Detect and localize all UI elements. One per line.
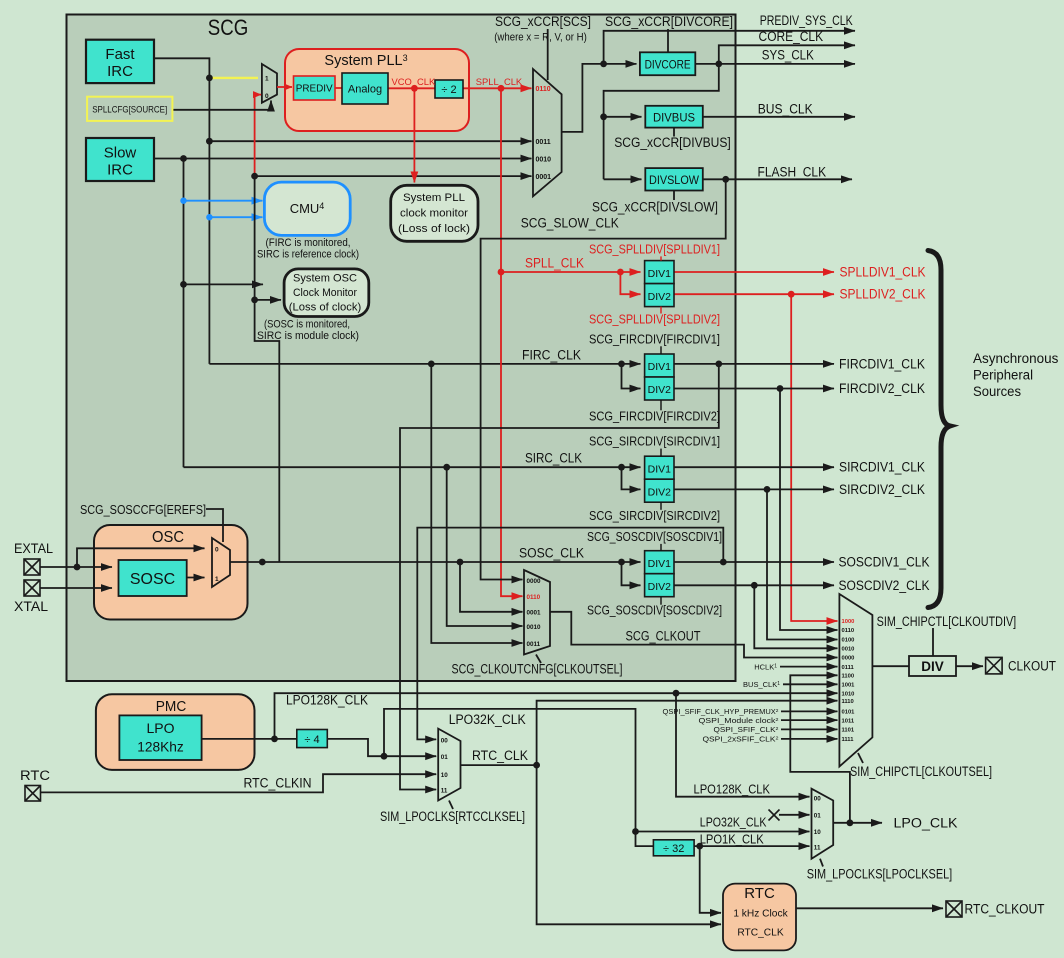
wire DIV to CLKOUT pad bbox=[956, 665, 983, 667]
wire VCO_CLK Analog to div2 bbox=[388, 87, 435, 89]
svg-text:RTC: RTC bbox=[20, 768, 50, 783]
PREDIV bbox=[294, 76, 336, 100]
svg-text:DIV2: DIV2 bbox=[648, 291, 672, 303]
svg-text:OSC: OSC bbox=[152, 529, 184, 546]
wire DIVSLOW label tick bbox=[673, 191, 675, 201]
svg-text:FLASH_CLK: FLASH_CLK bbox=[758, 165, 827, 180]
svg-text:SPLLDIV2_CLK: SPLLDIV2_CLK bbox=[840, 287, 926, 302]
svg-text:Asynchronous: Asynchronous bbox=[973, 351, 1059, 366]
svg-text:CMU4: CMU4 bbox=[290, 201, 325, 216]
svg-text:SPLL_CLK: SPLL_CLK bbox=[525, 256, 584, 271]
wire HCLK to SIM mux 0111 bbox=[780, 666, 838, 668]
wire div32 out LPO1K to LPOCLKSEL 11 bbox=[694, 845, 809, 847]
svg-text:LPO_CLK: LPO_CLK bbox=[894, 816, 958, 831]
junction DIVCORE out bbox=[715, 61, 722, 68]
svg-text:DIV1: DIV1 bbox=[648, 463, 672, 475]
svg-text:SCG_xCCR[SCS]: SCG_xCCR[SCS] bbox=[495, 14, 591, 29]
wire FIRCDIV1 to RTCCLKSEL 11 bbox=[400, 364, 719, 790]
wire SCG_CLKOUT to SIM mux 0000 bbox=[550, 612, 838, 658]
svg-text:LPO128K_CLK: LPO128K_CLK bbox=[694, 782, 771, 797]
svg-text:DIV2: DIV2 bbox=[648, 486, 672, 498]
wire SIRCDIV1_CLK out bbox=[674, 466, 835, 468]
svg-text:01: 01 bbox=[814, 813, 822, 820]
pad EXTAL bbox=[24, 559, 40, 575]
Analog bbox=[342, 73, 388, 104]
SOSCDIV DIV2 bbox=[645, 574, 674, 597]
svg-text:SCG_SOSCDIV[SOSCDIV1]: SCG_SOSCDIV[SOSCDIV1] bbox=[587, 529, 722, 544]
wire SLOW_CLK to SCG_CLKOUT 0000 bbox=[481, 179, 726, 579]
pad CLKOUT bbox=[986, 657, 1003, 674]
brace asynchronous peripheral sources bbox=[928, 251, 950, 608]
mux RTCCLKSEL bbox=[438, 729, 460, 801]
wire LPO1K to RTC 1kHz bbox=[700, 846, 721, 913]
svg-text:FIRC_CLK: FIRC_CLK bbox=[522, 348, 581, 363]
junction LPO32K lpo bbox=[632, 828, 639, 835]
svg-text:1100: 1100 bbox=[842, 674, 855, 680]
svg-text:LPO: LPO bbox=[146, 720, 174, 736]
wire SIRC riser bbox=[183, 159, 185, 468]
svg-text:PREDIV: PREDIV bbox=[296, 83, 333, 95]
DIVBUS bbox=[645, 106, 703, 128]
svg-text:RTC_CLK: RTC_CLK bbox=[737, 928, 783, 939]
svg-text:0011: 0011 bbox=[527, 641, 541, 648]
junction SPLL div tap bbox=[498, 269, 505, 276]
svg-text:0001: 0001 bbox=[527, 610, 542, 617]
svg-text:1010: 1010 bbox=[842, 691, 855, 697]
svg-text:Sources: Sources bbox=[973, 384, 1021, 399]
svg-text:Fast: Fast bbox=[105, 46, 135, 63]
svg-text:QSPI_2xSFIF_CLK2: QSPI_2xSFIF_CLK2 bbox=[703, 736, 780, 744]
svg-text:0110: 0110 bbox=[842, 628, 855, 634]
wire SOSC to SCG_CLKOUT 0001 bbox=[460, 562, 523, 612]
wire SOSC to SCS mux 0001 bbox=[255, 175, 532, 177]
svg-text:SOSCDIV2_CLK: SOSCDIV2_CLK bbox=[839, 578, 930, 593]
wire QSPI_SFIF_CLK to 1101 bbox=[781, 728, 838, 730]
junction VCO tap bbox=[411, 85, 418, 92]
svg-text:FIRCDIV1_CLK: FIRCDIV1_CLK bbox=[839, 357, 925, 372]
svg-text:1011: 1011 bbox=[842, 718, 855, 724]
SOSCDIV DIV1 bbox=[645, 551, 674, 574]
svg-text:0101: 0101 bbox=[842, 710, 856, 716]
svg-text:SOSC: SOSC bbox=[130, 571, 175, 588]
mux PLL source select bbox=[262, 64, 277, 103]
junction CMU blue tap FIRC bbox=[206, 214, 212, 220]
wire RTC_CLKIN bbox=[41, 774, 437, 792]
wire SIM CLKOUTSEL label tick bbox=[858, 753, 863, 763]
wire SPLL_CLK riser bbox=[501, 88, 523, 596]
DIVCORE bbox=[640, 52, 695, 75]
junction DIVBUS in bbox=[600, 113, 607, 120]
svg-text:11: 11 bbox=[814, 844, 821, 851]
wire SCS mux out jog bbox=[562, 64, 604, 132]
wire XTAL in bbox=[40, 587, 112, 589]
source block Slow IRC bbox=[86, 138, 154, 181]
svg-text:VCO_CLK: VCO_CLK bbox=[392, 76, 437, 87]
wire SOSCDIV2_CLK out bbox=[674, 584, 835, 586]
svg-text:1: 1 bbox=[265, 76, 269, 83]
svg-text:SIM_CHIPCTL[CLKOUTSEL]: SIM_CHIPCTL[CLKOUTSEL] bbox=[850, 764, 992, 779]
wire SOSC_CLK row bbox=[230, 561, 641, 563]
svg-text:0111: 0111 bbox=[842, 665, 855, 671]
CMU block bbox=[264, 182, 350, 235]
svg-text:BUS_CLK: BUS_CLK bbox=[758, 102, 813, 117]
wire SIRC to SIRCDIV2 bbox=[622, 467, 641, 489]
svg-text:SCG_FIRCDIV[FIRCDIV1]: SCG_FIRCDIV[FIRCDIV1] bbox=[589, 331, 720, 346]
wire RTC_CLK to SIM mux 1110 bbox=[537, 701, 838, 765]
junction FIRCDIV2 bbox=[777, 385, 784, 392]
wire FIRC riser to SCG_CLKOUT 0011 bbox=[431, 364, 522, 643]
junction SPLL div2 tap bbox=[617, 269, 624, 276]
svg-text:SCG_SOSCCFG[EREFS]: SCG_SOSCCFG[EREFS] bbox=[80, 503, 206, 517]
svg-text:SCG_CLKOUT: SCG_CLKOUT bbox=[626, 629, 701, 644]
svg-text:(where x = R, V, or H): (where x = R, V, or H) bbox=[494, 32, 587, 44]
SPLLDIV DIV1 bbox=[645, 261, 674, 284]
wire div4 out LPO32K bbox=[327, 739, 436, 756]
svg-text:SIRC_CLK: SIRC_CLK bbox=[525, 451, 582, 466]
wire SOSC to OSC clock monitor bbox=[255, 299, 281, 301]
svg-text:DIV1: DIV1 bbox=[648, 558, 672, 570]
wire DIVCORE tap down bbox=[604, 64, 719, 179]
wire DIVCORE out SYS_CLK bbox=[695, 63, 855, 65]
svg-text:0011: 0011 bbox=[536, 139, 551, 146]
junction SOSCDIV1 bbox=[720, 559, 727, 566]
wire FIRCDIV2 riser to SIM mux 0110 bbox=[780, 389, 838, 631]
svg-text:(SOSC is monitored,: (SOSC is monitored, bbox=[264, 319, 350, 331]
SIRCDIV DIV1 bbox=[645, 456, 674, 479]
svg-text:SIRCDIV2_CLK: SIRCDIV2_CLK bbox=[839, 482, 925, 497]
wire DIVCORE select tick bbox=[667, 29, 669, 52]
SCG block enclosure bbox=[67, 15, 736, 682]
junction SOSC 0001 bbox=[251, 173, 258, 180]
junction FIRCDIV1 bbox=[715, 361, 722, 368]
junction SOSC SOSCDIV bbox=[618, 559, 625, 566]
svg-text:HCLK1: HCLK1 bbox=[754, 663, 777, 672]
SOSC oscillator bbox=[119, 560, 187, 596]
svg-text:DIV: DIV bbox=[921, 659, 944, 674]
svg-text:(Loss of lock): (Loss of lock) bbox=[398, 223, 470, 235]
source block Fast IRC bbox=[86, 40, 154, 83]
wire QSPI_Module_clock to 1011 bbox=[781, 719, 838, 721]
svg-text:LPO128K_CLK: LPO128K_CLK bbox=[286, 693, 368, 708]
junction LPO out bbox=[271, 736, 278, 743]
divider div32 bbox=[653, 840, 694, 856]
svg-text:BUS_CLK1: BUS_CLK1 bbox=[743, 680, 780, 689]
junction DIVCORE in bbox=[600, 61, 607, 68]
divider div4 bbox=[297, 730, 328, 748]
junction SIRC clkout bbox=[443, 464, 450, 471]
svg-text:DIV2: DIV2 bbox=[648, 581, 672, 593]
svg-text:SCG_xCCR[DIVSLOW]: SCG_xCCR[DIVSLOW] bbox=[592, 200, 718, 215]
svg-text:System PLL: System PLL bbox=[403, 192, 465, 204]
wire PLL mux out to PREDIV bbox=[277, 86, 292, 88]
svg-text:SCG_xCCR[DIVCORE]: SCG_xCCR[DIVCORE] bbox=[605, 14, 733, 29]
wire to DIVBUS bbox=[604, 116, 642, 118]
svg-text:÷ 32: ÷ 32 bbox=[663, 843, 684, 855]
wire SIRC ref to CMU bbox=[184, 200, 263, 202]
divider div2 bbox=[435, 80, 463, 98]
junction SOSC clkout bbox=[457, 559, 464, 566]
wire BUS_CLK bbox=[703, 116, 855, 118]
label tick SIRCDIV bbox=[660, 449, 662, 457]
svg-text:RTC: RTC bbox=[744, 885, 775, 902]
wire FIRC from Fast IRC bbox=[154, 58, 209, 364]
wire RTC_CLK to RTC module bbox=[537, 765, 721, 924]
svg-text:÷ 2: ÷ 2 bbox=[441, 84, 456, 96]
junction FIRC corner dot bbox=[206, 75, 213, 82]
FIRCDIV DIV2 bbox=[645, 377, 674, 400]
svg-text:RTC_CLKOUT: RTC_CLKOUT bbox=[965, 902, 1045, 917]
svg-text:DIVCORE: DIVCORE bbox=[645, 60, 691, 72]
svg-text:SIM_LPOCLKS[LPOCLKSEL]: SIM_LPOCLKS[LPOCLKSEL] bbox=[807, 867, 953, 882]
wire DIVBUS label tick bbox=[673, 128, 675, 137]
wire LPO128K_CLK to SIM mux 1010 bbox=[275, 693, 838, 739]
pad XTAL bbox=[24, 580, 40, 596]
svg-text:SCG: SCG bbox=[208, 15, 249, 40]
svg-text:SPLL_CLK: SPLL_CLK bbox=[476, 76, 523, 87]
junction FIRC 0011 riser bbox=[428, 361, 435, 368]
mux LPOCLKSEL bbox=[812, 789, 834, 859]
svg-text:PREDIV_SYS_CLK: PREDIV_SYS_CLK bbox=[760, 13, 853, 28]
svg-text:SCG_FIRCDIV[FIRCDIV2]: SCG_FIRCDIV[FIRCDIV2] bbox=[589, 408, 720, 423]
svg-text:RTC_CLKIN: RTC_CLKIN bbox=[244, 776, 312, 791]
wire FLASH_CLK bbox=[703, 178, 852, 180]
mux OSC bypass mux bbox=[212, 538, 230, 587]
PMC block bbox=[96, 694, 255, 770]
pad RTC bbox=[25, 786, 41, 802]
RTC module bbox=[723, 884, 796, 951]
wire SPLLDIV2 riser to SIM mux 1000 bbox=[791, 294, 837, 621]
svg-text:SIRCDIV1_CLK: SIRCDIV1_CLK bbox=[839, 460, 925, 475]
svg-text:SCG_CLKOUTCNFG[CLKOUTSEL]: SCG_CLKOUTCNFG[CLKOUTSEL] bbox=[452, 662, 623, 677]
svg-text:10: 10 bbox=[441, 772, 449, 779]
register field SPLLCFG[SOURCE] bbox=[87, 97, 172, 121]
svg-text:SOSCDIV1_CLK: SOSCDIV1_CLK bbox=[839, 555, 930, 570]
wire PREDIV to Analog bbox=[335, 87, 342, 89]
svg-text:1101: 1101 bbox=[842, 728, 855, 734]
svg-text:QSPI_SFIF_CLK_HYP_PREMUX2: QSPI_SFIF_CLK_HYP_PREMUX2 bbox=[663, 708, 780, 716]
svg-text:CLKOUT: CLKOUT bbox=[1008, 659, 1056, 674]
wire SPLLDIV2_CLK out bbox=[674, 293, 834, 295]
svg-text:SPLLDIV1_CLK: SPLLDIV1_CLK bbox=[840, 265, 926, 280]
label tick FIRCDIV bbox=[660, 346, 662, 354]
junction SOSC line bbox=[259, 559, 266, 566]
wire SIRC_CLK to SIRCDIV1 bbox=[184, 466, 641, 468]
pad RTC_CLKOUT bbox=[946, 901, 962, 917]
wire SPLL_CLK to SPLLDIV2 bbox=[620, 272, 640, 294]
svg-text:DIVSLOW: DIVSLOW bbox=[649, 175, 699, 187]
svg-text:0010: 0010 bbox=[527, 624, 542, 631]
svg-text:1110: 1110 bbox=[842, 699, 854, 705]
svg-text:Clock Monitor: Clock Monitor bbox=[293, 287, 357, 299]
mux SCS system clock select bbox=[533, 69, 562, 196]
wire SIRC from Slow IRC to SCS mux 0010 bbox=[154, 158, 532, 160]
wire CORE_CLK bbox=[719, 45, 855, 64]
wire SOSC riser with jog bbox=[255, 176, 280, 562]
svg-text:SIRC is reference clock): SIRC is reference clock) bbox=[257, 249, 359, 261]
svg-text:01: 01 bbox=[441, 754, 449, 761]
svg-text:SPLLCFG[SOURCE]: SPLLCFG[SOURCE] bbox=[92, 104, 167, 115]
svg-text:QSPI_Module clock2: QSPI_Module clock2 bbox=[699, 717, 780, 725]
svg-text:XTAL: XTAL bbox=[14, 599, 48, 614]
wire SOSC red tap to PLL source mux 0 bbox=[255, 95, 261, 177]
wire FIRC_CLK to FIRCDIV1 bbox=[209, 363, 640, 365]
junction SOSC monitor bbox=[251, 297, 258, 304]
wire BUS_CLK to SIM mux 1001 bbox=[783, 683, 838, 685]
mux SCG CLKOUT select bbox=[524, 570, 550, 655]
svg-text:SOSC_CLK: SOSC_CLK bbox=[519, 546, 584, 561]
LPO oscillator bbox=[119, 715, 201, 760]
wire SOSCDIV2 riser to SIM mux 0010 bbox=[754, 585, 837, 648]
wire SOSC to SOSCDIV2 bbox=[622, 562, 641, 585]
junction LPO1K bbox=[696, 843, 703, 850]
junction LPO128K bbox=[673, 690, 680, 697]
wire FIRC to SCS mux 0011 bbox=[209, 140, 531, 142]
svg-text:SCG_SPLLDIV[SPLLDIV1]: SCG_SPLLDIV[SPLLDIV1] bbox=[589, 241, 720, 256]
label tick SOSCDIV bbox=[660, 544, 662, 551]
svg-text:0110: 0110 bbox=[536, 86, 551, 93]
junction SIRC monitor bbox=[180, 281, 187, 288]
svg-text:QSPI_SFIF_CLK2: QSPI_SFIF_CLK2 bbox=[714, 726, 780, 734]
svg-text:LPO32K_CLK: LPO32K_CLK bbox=[700, 815, 767, 830]
System PLL clock monitor bbox=[391, 185, 478, 241]
System OSC Clock Monitor bbox=[284, 269, 369, 317]
svg-text:0010: 0010 bbox=[842, 647, 855, 653]
svg-text:PMC: PMC bbox=[156, 698, 187, 715]
svg-text:clock monitor: clock monitor bbox=[400, 208, 468, 220]
svg-text:LPO32K_CLK: LPO32K_CLK bbox=[449, 712, 526, 727]
junction EXTAL bbox=[74, 564, 81, 571]
FIRCDIV DIV1 bbox=[645, 354, 674, 377]
svg-text:1000: 1000 bbox=[842, 619, 855, 625]
svg-text:SYS_CLK: SYS_CLK bbox=[762, 48, 814, 63]
junction CMU blue tap SIRC bbox=[180, 198, 186, 204]
svg-text:RTC_CLK: RTC_CLK bbox=[472, 748, 528, 763]
wire FIRC to FIRCDIV2 bbox=[622, 364, 641, 389]
junction SIRC riser bbox=[180, 155, 187, 162]
junction FLASH bbox=[722, 176, 729, 183]
DIVSLOW bbox=[645, 168, 703, 190]
wire SIRC module clock to OSC monitor bbox=[184, 283, 264, 285]
wire PREDIV_SYS_CLK bbox=[604, 31, 855, 64]
SPLLDIV DIV2 bbox=[645, 284, 674, 307]
SIRCDIV DIV2 bbox=[645, 479, 674, 502]
wire LPO32K to LPOCLKSEL 10 bbox=[636, 831, 810, 833]
wire SPLL_CLK div2 to SCS mux 0110 bbox=[463, 87, 532, 89]
oscillator block OSC bbox=[94, 525, 248, 620]
wire LPO32K X line to LPOCLKSEL 01 bbox=[779, 814, 810, 816]
svg-text:CORE_CLK: CORE_CLK bbox=[759, 29, 824, 44]
output divider DIV bbox=[909, 656, 956, 676]
wire SCS select tick bbox=[547, 29, 549, 80]
svg-text:SCG_xCCR[DIVBUS]: SCG_xCCR[DIVBUS] bbox=[614, 135, 731, 150]
svg-text:1111: 1111 bbox=[842, 737, 855, 743]
svg-text:Analog: Analog bbox=[348, 84, 382, 96]
svg-text:0100: 0100 bbox=[842, 638, 855, 644]
wire CLKOUTDIV tick bbox=[932, 628, 934, 656]
wire LPO out bbox=[202, 738, 297, 740]
svg-text:SIM_LPOCLKS[RTCCLKSEL]: SIM_LPOCLKS[RTCCLKSEL] bbox=[380, 809, 525, 824]
svg-text:0010: 0010 bbox=[536, 157, 552, 164]
wire LPO128K to LPOCLKSEL 00 bbox=[676, 693, 810, 797]
wire SIRC to SCG_CLKOUT 0010 bbox=[447, 467, 523, 626]
junction SIRC SIRCDIV bbox=[618, 464, 625, 471]
svg-text:SCG_SPLLDIV[SPLLDIV2]: SCG_SPLLDIV[SPLLDIV2] bbox=[589, 312, 720, 327]
System PLL block bbox=[285, 49, 469, 131]
svg-text:÷ 4: ÷ 4 bbox=[304, 734, 319, 746]
wire FIRC yellow to PLL mux 1 bbox=[211, 77, 258, 79]
wire EXTAL bypass to OSC mux 0 bbox=[77, 548, 205, 567]
svg-text:1: 1 bbox=[215, 576, 219, 583]
svg-text:SCG_SIRCDIV[SIRCDIV2]: SCG_SIRCDIV[SIRCDIV2] bbox=[589, 508, 720, 523]
wire SIM mux out to DIV bbox=[872, 665, 909, 667]
wire EXTAL in bbox=[40, 566, 112, 568]
svg-text:SIM_CHIPCTL[CLKOUTDIV]: SIM_CHIPCTL[CLKOUTDIV] bbox=[877, 614, 1017, 629]
svg-text:11: 11 bbox=[441, 788, 448, 795]
svg-text:10: 10 bbox=[814, 829, 822, 836]
wire FIRCDIV2_CLK out bbox=[674, 388, 835, 390]
svg-text:SCG_SOSCDIV[SOSCDIV2]: SCG_SOSCDIV[SOSCDIV2] bbox=[587, 603, 722, 618]
wire QSPI_2xSFIF_CLK to 1111 bbox=[781, 738, 838, 740]
svg-text:IRC: IRC bbox=[107, 63, 133, 80]
wire SPLLDIV1_CLK out bbox=[674, 271, 834, 273]
wire SCG_CLKOUT label tick bbox=[536, 655, 541, 664]
junction LPO_CLK bbox=[847, 819, 854, 826]
wire VCO_CLK to PLL monitor bbox=[413, 88, 415, 182]
svg-text:Slow: Slow bbox=[104, 145, 137, 162]
wire SPLL_CLK to SPLLDIV1 bbox=[501, 271, 641, 273]
wire SIRCDIV2_CLK out bbox=[674, 488, 835, 490]
wire RTCCLKSEL label tick bbox=[449, 801, 453, 810]
svg-text:128Khz: 128Khz bbox=[137, 739, 184, 755]
wire EREFS select bbox=[206, 509, 223, 542]
svg-text:DIV1: DIV1 bbox=[648, 361, 672, 373]
svg-text:0000: 0000 bbox=[842, 656, 855, 662]
svg-text:System OSC: System OSC bbox=[293, 273, 357, 285]
svg-text:1 kHz Clock: 1 kHz Clock bbox=[733, 909, 788, 920]
svg-text:EXTAL: EXTAL bbox=[14, 541, 53, 556]
svg-text:DIV1: DIV1 bbox=[648, 268, 672, 280]
svg-text:DIVBUS: DIVBUS bbox=[653, 113, 695, 125]
junction SIRCDIV2 bbox=[764, 486, 771, 493]
svg-text:SCG_SIRCDIV[SIRCDIV1]: SCG_SIRCDIV[SIRCDIV1] bbox=[589, 434, 720, 449]
mux SIM CLKOUT select bbox=[839, 594, 872, 767]
svg-text:SCG_SLOW_CLK: SCG_SLOW_CLK bbox=[521, 216, 619, 231]
svg-text:0: 0 bbox=[215, 547, 219, 554]
junction RTC_CLK bbox=[533, 762, 540, 769]
wire LPO_CLK riser to SIM mux 1100 bbox=[790, 675, 850, 823]
junction LPO32K rtc bbox=[381, 753, 388, 760]
wire to DIVSLOW bbox=[604, 178, 642, 180]
junction FIRC FIRCDIV bbox=[618, 361, 625, 368]
svg-text:0: 0 bbox=[265, 93, 269, 100]
wire LPOCLKSEL out LPO_CLK bbox=[833, 822, 882, 824]
wire FIRC monitored to CMU bbox=[209, 216, 262, 218]
junction SPLL 0110 bbox=[498, 85, 505, 92]
wire RTCCLKSEL out RTC_CLK bbox=[461, 764, 537, 766]
svg-text:FIRCDIV2_CLK: FIRCDIV2_CLK bbox=[839, 381, 925, 396]
label tick SPLLDIV bbox=[660, 256, 662, 260]
wire FIRCDIV1_CLK out bbox=[674, 363, 835, 365]
junction SOSCDIV2 bbox=[751, 582, 758, 589]
svg-text:(Loss of clock): (Loss of clock) bbox=[289, 302, 362, 314]
svg-text:Peripheral: Peripheral bbox=[973, 368, 1033, 383]
svg-text:System PLL3: System PLL3 bbox=[324, 53, 407, 69]
junction SPLLDIV2 bbox=[788, 291, 795, 298]
wire LPOCLKSEL label tick bbox=[820, 859, 823, 867]
wire SOSC to OSC mux 1 bbox=[187, 577, 205, 579]
wire LPO32K riser bbox=[384, 709, 653, 846]
svg-text:00: 00 bbox=[814, 795, 822, 802]
